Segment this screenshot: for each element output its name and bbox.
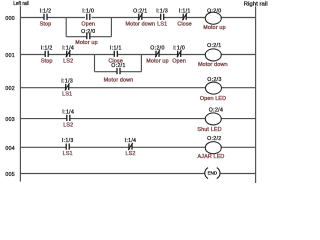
svg-text:Open LED: Open LED (200, 96, 226, 102)
svg-text:Stop: Stop (41, 58, 53, 64)
svg-text:END: END (208, 171, 218, 176)
svg-text:I:1/4: I:1/4 (125, 138, 137, 144)
svg-text:O:2/3: O:2/3 (207, 77, 221, 83)
svg-text:Motor down: Motor down (125, 21, 155, 27)
svg-text:Motor down: Motor down (198, 62, 228, 68)
svg-text:000: 000 (5, 16, 15, 22)
svg-text:O:2/0: O:2/0 (81, 29, 95, 35)
rung 002 wire segments (20, 87, 255, 89)
NO contact I:1/0 (Open) rung 000 (81, 8, 95, 27)
svg-text:LS2: LS2 (63, 58, 73, 64)
rung 000 wire segments (20, 17, 255, 19)
svg-text:I:1/2: I:1/2 (40, 8, 52, 14)
NO contact I:1/3 (LS1) rung 000 (156, 8, 168, 27)
output coil O:2/2 (AJAR LED) (198, 136, 225, 160)
NO contact I:1/2 (Stop) rung 000 (40, 8, 52, 27)
svg-text:LS1: LS1 (63, 151, 73, 157)
NC contact O:2/1 (Motor down) rung 000 (125, 8, 155, 27)
svg-text:004: 004 (5, 146, 15, 152)
branch wire rung 001 (95, 71, 142, 73)
svg-text:O:2/1: O:2/1 (111, 63, 125, 69)
branch box rung 001 (verticals) (95, 55, 142, 72)
NC contact I:1/0 (Open) rung 001 (172, 45, 186, 64)
svg-text:I:1/3: I:1/3 (156, 8, 168, 14)
svg-text:O:2/2: O:2/2 (207, 136, 221, 142)
rung 004 wire segments (20, 146, 255, 148)
svg-text:005: 005 (5, 172, 15, 178)
svg-text:Motor down: Motor down (104, 77, 134, 83)
svg-text:Open: Open (172, 58, 186, 64)
svg-text:I:1/3: I:1/3 (62, 138, 74, 144)
svg-text:Close: Close (177, 21, 192, 27)
NC contact I:1/3 (LS1) rung 002 (61, 79, 73, 98)
NO contact I:1/2 (Stop) rung 001 (41, 45, 53, 64)
rung 005 wire segments (20, 173, 255, 175)
svg-text:I:1/1: I:1/1 (179, 8, 191, 14)
output coil O:2/0 (Motor up) (203, 8, 225, 31)
svg-text:O:2/0: O:2/0 (207, 8, 221, 14)
svg-text:I:1/1: I:1/1 (110, 45, 122, 51)
svg-text:I:1/4: I:1/4 (62, 110, 74, 116)
svg-text:Stop: Stop (40, 21, 52, 27)
svg-text:O:2/4: O:2/4 (209, 107, 223, 113)
svg-text:O:2/0: O:2/0 (150, 45, 164, 51)
svg-text:LS1: LS1 (157, 21, 167, 27)
branch NO contact O:2/1 (Motor down) rung 001 (104, 63, 134, 84)
svg-text:LS1: LS1 (62, 92, 72, 98)
output coil O:2/1 (Motor down) (198, 43, 228, 68)
svg-text:002: 002 (5, 86, 15, 92)
svg-text:003: 003 (5, 117, 15, 123)
NC contact I:1/1 (Close) rung 000 (177, 8, 192, 27)
right rail (255, 6, 257, 183)
svg-text:Motor up: Motor up (203, 25, 225, 31)
NO contact I:1/1 (Close) rung 001 (109, 45, 124, 64)
svg-text:I:1/0: I:1/0 (82, 8, 94, 14)
NC contact I:1/4 (LS2) rung 001 (62, 45, 74, 64)
svg-text:LS2: LS2 (63, 122, 73, 128)
left rail (19, 6, 21, 182)
svg-text:O:2/1: O:2/1 (207, 43, 221, 49)
svg-text:LS2: LS2 (125, 151, 135, 157)
NC contact O:2/0 (Motor up) rung 001 (146, 45, 168, 64)
END coil (205, 168, 220, 179)
svg-text:Motor up: Motor up (75, 40, 97, 46)
rung 003 wire segments (20, 118, 255, 120)
rung 001 wire segments (20, 54, 255, 56)
svg-text:I:1/2: I:1/2 (41, 45, 53, 51)
svg-text:Motor up: Motor up (146, 58, 168, 64)
svg-text:I:1/0: I:1/0 (173, 45, 185, 51)
NO contact I:1/4 (LS2) rung 003 (62, 110, 74, 129)
svg-text:Shut LED: Shut LED (197, 127, 221, 133)
svg-text:AJAR LED: AJAR LED (198, 154, 225, 160)
branch box rung 000 (verticals) (66, 18, 111, 37)
NO contact I:1/3 (LS1) rung 004 (62, 138, 74, 157)
svg-text:001: 001 (5, 53, 15, 59)
svg-text:O:2/1: O:2/1 (133, 8, 147, 14)
svg-text:Open: Open (81, 21, 95, 27)
output coil O:2/4 (Shut LED) (197, 107, 223, 133)
output coil O:2/3 (Open LED) (200, 77, 226, 102)
branch wire rung 000 (66, 36, 111, 38)
NC contact I:1/4 (LS2) rung 004 (125, 138, 137, 157)
svg-text:I:1/3: I:1/3 (61, 79, 73, 85)
branch NO contact O:2/0 (Motor up) rung 000 (75, 29, 97, 46)
svg-text:I:1/4: I:1/4 (62, 45, 74, 51)
